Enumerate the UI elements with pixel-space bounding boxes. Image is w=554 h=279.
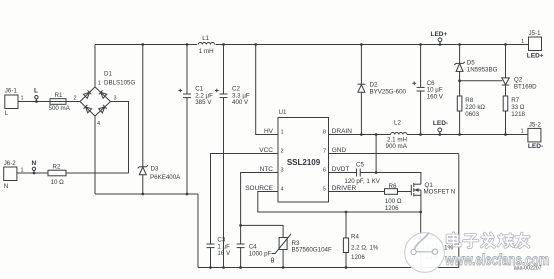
wire drain-line drop — [375, 133, 378, 172]
svg-text:J6-2: J6-2 — [4, 160, 17, 167]
diode D3 P6KE400A (TVS) — [138, 43, 182, 195]
svg-text:LED+: LED+ — [527, 53, 544, 60]
svg-text:16 V: 16 V — [217, 250, 231, 257]
svg-text:R6: R6 — [389, 183, 397, 190]
watermark chinese text (drawn as vector strokes) — [447, 233, 529, 248]
wire R6 to gate — [398, 191, 412, 193]
svg-text:VCC: VCC — [259, 147, 273, 154]
svg-text:1: 1 — [281, 129, 284, 135]
wire bridge pin4 down — [94, 116, 96, 194]
pin 7 GND — [323, 147, 347, 155]
svg-text:R7: R7 — [511, 97, 519, 104]
svg-text:R8: R8 — [465, 97, 473, 104]
svg-text:D3: D3 — [151, 166, 159, 173]
wire R2 to riser — [66, 172, 129, 174]
svg-text:4: 4 — [281, 186, 284, 192]
svg-text:1: 1 — [98, 80, 101, 86]
svg-text:U1: U1 — [279, 109, 287, 116]
svg-text:SSL2109: SSL2109 — [287, 158, 321, 167]
diode D5 1N5953BG (zener) — [454, 43, 497, 96]
svg-text:1000 pF: 1000 pF — [249, 250, 272, 257]
wire VCC net — [211, 154, 279, 245]
svg-text:1218: 1218 — [511, 111, 525, 118]
bridge rectifier D1 DBLS105G — [80, 71, 135, 127]
svg-text:L2: L2 — [394, 120, 401, 127]
svg-text:8: 8 — [323, 129, 326, 135]
pin 8 DRAIN — [323, 128, 352, 136]
thermistor R3 — [271, 234, 332, 269]
svg-text:C4: C4 — [249, 243, 257, 250]
svg-text:385 V: 385 V — [195, 99, 212, 106]
diode D2 BYV25G-600 — [357, 43, 406, 136]
svg-text:N: N — [32, 160, 37, 167]
connector J6-2 — [4, 160, 24, 190]
wire NTC net — [239, 173, 283, 245]
svg-text:160 V: 160 V — [427, 93, 444, 100]
svg-text:4: 4 — [97, 121, 100, 127]
svg-text:aaa-002207: aaa-002207 — [514, 266, 542, 272]
svg-text:DVDT: DVDT — [332, 166, 350, 173]
svg-text:1 mH: 1 mH — [199, 48, 214, 55]
connector J5-1 — [521, 30, 544, 60]
svg-text:D1: D1 — [104, 71, 112, 78]
svg-text:2: 2 — [74, 96, 77, 102]
svg-text:L1: L1 — [202, 35, 209, 42]
svg-text:900 mA: 900 mA — [386, 143, 408, 150]
svg-text:B57560G104F: B57560G104F — [292, 246, 332, 253]
svg-text:500 mA: 500 mA — [49, 105, 71, 112]
capacitor C6 — [412, 43, 443, 136]
wire DVDT to C5 — [329, 172, 357, 174]
svg-text:BT169D: BT169D — [514, 84, 537, 91]
node L — [34, 88, 38, 103]
node LED- — [433, 120, 448, 136]
svg-text:1206: 1206 — [385, 205, 399, 212]
svg-text:220 kΩ: 220 kΩ — [465, 104, 485, 111]
capacitor C4 — [237, 243, 272, 269]
svg-text:1: 1 — [521, 128, 524, 134]
svg-text:6: 6 — [323, 167, 326, 173]
watermark logo disc — [405, 233, 445, 273]
svg-text:7: 7 — [323, 148, 326, 154]
svg-text:P6KE400A: P6KE400A — [150, 174, 181, 181]
svg-text:1: 1 — [521, 39, 524, 45]
svg-text:GND: GND — [332, 147, 347, 154]
pin 2 VCC — [259, 147, 283, 155]
svg-text:3: 3 — [114, 96, 117, 102]
svg-text:120 pF, 1 KV: 120 pF, 1 KV — [344, 178, 380, 185]
transistor Q1 MOSFET N — [411, 182, 455, 212]
svg-text:2: 2 — [281, 148, 284, 154]
wire bottom ground rail — [198, 267, 459, 269]
connector J5-2 — [521, 121, 544, 150]
inductor L2 — [386, 120, 408, 150]
capacitor C1 — [179, 43, 214, 195]
svg-text:HV: HV — [264, 128, 274, 135]
wire gate of Q2 — [460, 80, 503, 82]
wire J6-2 to R2 — [17, 172, 48, 174]
svg-text:0603: 0603 — [465, 111, 479, 118]
svg-text:10 Ω: 10 Ω — [51, 179, 65, 186]
wire J6-1 to R1 — [18, 101, 50, 103]
svg-text:BYV25G-600: BYV25G-600 — [370, 89, 407, 96]
svg-text:DBLS105G: DBLS105G — [104, 79, 135, 86]
pin 3 NTC — [260, 166, 284, 174]
resistor R7 — [503, 96, 525, 136]
wire bridge pin3 to N riser — [111, 102, 129, 174]
resistor R6 — [385, 183, 402, 212]
IC U1 SSL2109 — [278, 109, 329, 202]
resistor R8 — [457, 96, 485, 136]
svg-text:LED-: LED- — [528, 143, 543, 150]
resistor R1 (fuse 500 mA) — [49, 92, 71, 112]
svg-text:N: N — [4, 183, 8, 190]
svg-text:DRAIN: DRAIN — [332, 128, 353, 135]
wire dc-minus horizontal — [95, 193, 198, 195]
capacitor C5 — [344, 161, 380, 185]
svg-text:LED+: LED+ — [431, 31, 448, 38]
wire bridge pin1 riser — [94, 45, 96, 88]
svg-text:J5-1: J5-1 — [529, 30, 542, 37]
thyristor Q2 BT169D — [502, 43, 537, 96]
resistor R2 — [48, 163, 66, 186]
wire top rail — [95, 44, 529, 46]
svg-text:SOURCE: SOURCE — [245, 185, 273, 192]
wire GND net — [329, 153, 459, 155]
capacitor C3 — [207, 237, 232, 269]
svg-text:C5: C5 — [356, 161, 364, 168]
svg-text:J5-2: J5-2 — [529, 121, 542, 128]
svg-text:3: 3 — [281, 167, 284, 173]
wire switch node (C5 right to Q1 drain) — [360, 171, 421, 184]
svg-text:1N5953BG: 1N5953BG — [467, 67, 498, 74]
svg-text:DRIVER: DRIVER — [332, 185, 357, 192]
svg-text:2.2 Ω, 1%: 2.2 Ω, 1% — [351, 244, 379, 251]
resistor R5 (behind watermark) — [418, 211, 453, 269]
wire ground rail riser to GND pin net — [458, 154, 460, 268]
pin 4 SOURCE — [245, 185, 283, 193]
svg-text:1206: 1206 — [351, 254, 365, 261]
wire drain line (LED- net) — [329, 134, 528, 136]
inductor L1 — [197, 35, 215, 55]
node LED+ — [431, 31, 448, 46]
svg-text:D5: D5 — [467, 60, 475, 67]
pin 5 DRIVER — [323, 185, 357, 193]
resistor R4 — [343, 212, 378, 269]
wire DRIVER to R6 — [329, 191, 385, 193]
node N — [32, 160, 37, 174]
svg-text:R2: R2 — [53, 163, 61, 170]
svg-text:J6-1: J6-1 — [5, 88, 18, 95]
svg-text:NTC: NTC — [260, 166, 274, 173]
svg-text:1: 1 — [21, 96, 24, 102]
wire dc-minus corner down — [197, 194, 199, 268]
svg-text:R4: R4 — [351, 234, 359, 241]
capacitor C2 — [215, 43, 250, 269]
wire R1 to bridge pin2 — [66, 101, 80, 103]
svg-text:MOSFET N: MOSFET N — [424, 188, 456, 195]
svg-text:L: L — [34, 88, 38, 95]
svg-text:Q2: Q2 — [514, 76, 523, 83]
svg-text:5: 5 — [323, 186, 326, 192]
svg-text:33 Ω: 33 Ω — [511, 104, 525, 111]
wire HV riser — [254, 43, 278, 134]
wire SOURCE net — [258, 192, 421, 214]
svg-text:LED-: LED- — [433, 120, 448, 127]
connector J6-1 — [5, 88, 24, 118]
svg-text:400 V: 400 V — [232, 99, 249, 106]
pin 6 DVDT — [323, 166, 350, 174]
svg-text:L: L — [5, 110, 9, 117]
svg-text:D2: D2 — [370, 82, 378, 89]
svg-text:R1: R1 — [55, 92, 63, 99]
svg-text:θ: θ — [271, 258, 275, 265]
pin 1 HV — [264, 128, 284, 136]
